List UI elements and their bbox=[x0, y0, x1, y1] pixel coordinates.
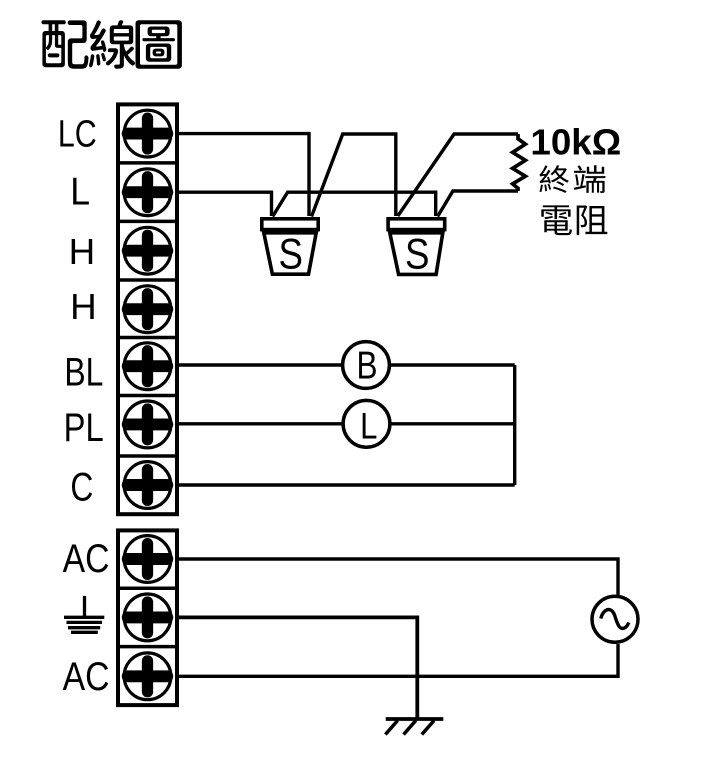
resistor 10k zigzag bbox=[513, 134, 526, 191]
svg-text:H: H bbox=[70, 286, 97, 327]
sensor S2 body bbox=[390, 233, 443, 275]
wire resistor bottom to sensor S2 top-right bbox=[438, 191, 518, 217]
wire earth terminal to earth ground bbox=[176, 617, 417, 719]
earth ground hatch 3 bbox=[422, 721, 434, 735]
wire AC bottom terminal to AC source bbox=[176, 644, 618, 676]
sensor S1 body bbox=[264, 233, 316, 274]
earth ground hatch 2 bbox=[404, 721, 416, 735]
TB2 cell divider 2 bbox=[116, 645, 177, 649]
svg-text:B: B bbox=[357, 343, 378, 387]
terminal screw earth bbox=[124, 594, 171, 641]
svg-text:L: L bbox=[70, 169, 90, 213]
earth label symbol (signal ground glyph) bbox=[64, 596, 104, 632]
lamp B circle bbox=[343, 342, 390, 389]
terminal screw PL bbox=[124, 401, 171, 448]
svg-text:S: S bbox=[405, 231, 429, 278]
TB2 cell divider 1 bbox=[116, 587, 177, 591]
terminal block TB1 outline bbox=[118, 104, 177, 514]
wire BL terminal to lamp B and right bus bbox=[176, 363, 515, 366]
AC source sine wave bbox=[601, 609, 629, 628]
wire AC top terminal to AC source bbox=[176, 559, 618, 596]
svg-text:S: S bbox=[279, 231, 303, 278]
wire PL terminal to lamp L and right bus bbox=[176, 422, 515, 425]
TB1 cell divider 2 bbox=[116, 220, 177, 224]
terminal screw C bbox=[124, 462, 171, 509]
terminal screw BL bbox=[124, 343, 171, 390]
terminal block TB2 outline bbox=[118, 530, 177, 705]
sensor S1 rim bbox=[262, 219, 318, 230]
terminal screw H (lower) bbox=[124, 286, 171, 333]
earth ground hatch 1 bbox=[385, 721, 397, 735]
terminal screw H (upper) bbox=[124, 227, 171, 274]
wire sensor S1 to sensor S2 (upper chain) bbox=[312, 134, 396, 217]
resistor label 終端 (terminating) bbox=[539, 165, 605, 193]
TB1 cell divider 6 bbox=[116, 454, 177, 458]
right bus vertical joining B, L, C wires bbox=[513, 365, 516, 485]
terminal screw LC bbox=[124, 110, 171, 157]
terminal screw AC (bottom) bbox=[124, 653, 171, 700]
svg-text:10kΩ: 10kΩ bbox=[530, 122, 621, 163]
lamp L circle bbox=[343, 400, 390, 447]
resistor label 電阻 (resistor) bbox=[541, 205, 607, 235]
TB1 cell divider 5 bbox=[116, 394, 177, 398]
svg-text:LC: LC bbox=[58, 113, 97, 155]
terminal screw L bbox=[124, 169, 171, 216]
TB1 cell divider 3 bbox=[116, 278, 177, 282]
earth ground bar bbox=[386, 717, 444, 721]
wire LC terminal to sensor S1 top-right bbox=[176, 134, 309, 216]
svg-text:C: C bbox=[70, 465, 93, 509]
svg-text:AC: AC bbox=[63, 536, 110, 580]
wire C terminal to right bus bbox=[176, 483, 515, 486]
TB1 cell divider 1 bbox=[116, 161, 177, 165]
terminal screw AC (top) bbox=[124, 536, 171, 583]
svg-text:AC: AC bbox=[63, 654, 110, 698]
wire sensor S2 to resistor top bbox=[398, 134, 518, 216]
svg-text:L: L bbox=[360, 406, 377, 447]
wire L terminal to sensor S1 top-left bbox=[176, 192, 272, 216]
wire sensor S1 top-left to sensor S2 (lower chain) bbox=[273, 192, 436, 216]
svg-text:PL: PL bbox=[64, 405, 104, 450]
TB1 cell divider 4 bbox=[116, 336, 177, 340]
title 配線圖 (wiring diagram) bbox=[42, 20, 182, 69]
svg-text:H: H bbox=[69, 231, 96, 272]
sensor S2 rim bbox=[388, 219, 445, 230]
AC source circle bbox=[592, 596, 638, 642]
svg-text:BL: BL bbox=[64, 349, 103, 394]
